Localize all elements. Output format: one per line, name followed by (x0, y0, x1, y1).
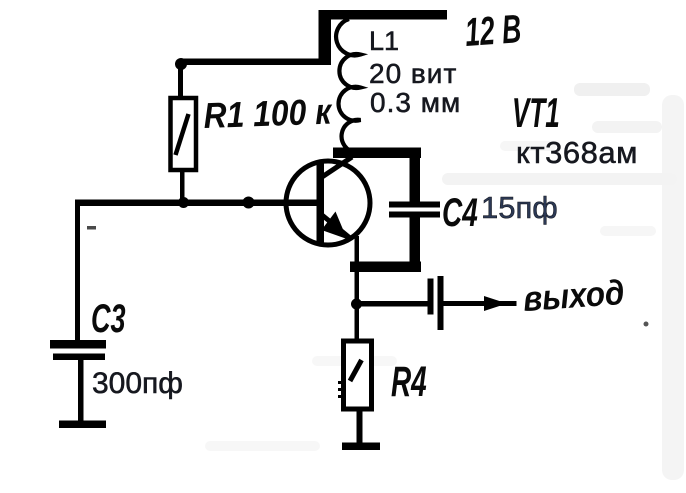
svg-text:12 В: 12 В (464, 7, 523, 56)
svg-text:L1: L1 (369, 26, 399, 56)
svg-text:кт368ам: кт368ам (516, 135, 638, 170)
svg-text:0.3 мм: 0.3 мм (370, 87, 461, 118)
svg-text:300пф: 300пф (92, 367, 183, 400)
svg-text:20 вит: 20 вит (369, 58, 457, 89)
svg-text:выход: выход (522, 274, 626, 320)
svg-text:15пф: 15пф (481, 190, 558, 225)
svg-text:R4: R4 (391, 357, 427, 406)
svg-text:R1 100 к: R1 100 к (203, 92, 334, 137)
svg-text:C3: C3 (91, 297, 126, 342)
svg-text:C4: C4 (442, 191, 478, 235)
svg-text:VT1: VT1 (512, 90, 560, 137)
